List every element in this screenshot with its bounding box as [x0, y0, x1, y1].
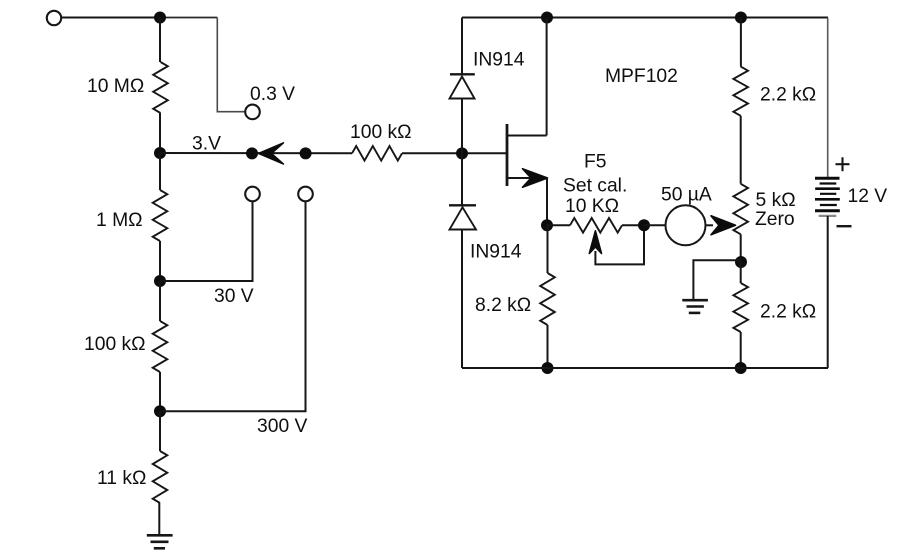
terminal 0.3 V: [245, 105, 260, 120]
diode D1 IN914 (upper): [450, 18, 475, 154]
node: input top junction: [154, 12, 166, 24]
potentiometer 10 KΩ Set cal (F5): [570, 218, 622, 233]
wire: 100k bottom to 300V node: [159, 372, 161, 411]
ground (meter reference): [682, 300, 708, 313]
battery B1 12 V: [827, 18, 829, 178]
resistor 10 MΩ: [153, 62, 168, 113]
resistor 8.2 kΩ: [540, 273, 555, 325]
svg-text:10 KΩ: 10 KΩ: [565, 196, 619, 217]
svg-text:2.2 kΩ: 2.2 kΩ: [760, 84, 816, 105]
svg-text:100 kΩ: 100 kΩ: [350, 122, 412, 143]
resistor 11 kΩ: [153, 451, 168, 503]
wire: input node to 0.3V branch corner: [160, 17, 217, 19]
JFET source arrow: [523, 169, 548, 188]
wire: meter to zero arrow: [706, 224, 714, 226]
node: 8.2k / bottom bus: [542, 362, 554, 374]
wire: top-left terminal to input node: [62, 17, 161, 19]
svg-text:100 kΩ: 100 kΩ: [84, 334, 146, 355]
svg-text:8.2 kΩ: 8.2 kΩ: [475, 295, 531, 316]
wire: 3V node to 1M top: [159, 153, 161, 190]
node: zero / ground junction: [735, 256, 747, 268]
svg-text:IN914: IN914: [470, 242, 522, 263]
resistor 2.2 kΩ (lower): [733, 283, 748, 332]
wire: node to meter: [644, 224, 666, 226]
wire: 1M bottom to 30V node: [159, 241, 161, 281]
svg-text:2.2 kΩ: 2.2 kΩ: [760, 302, 816, 323]
wire: source down to cal node: [546, 178, 548, 225]
battery minus sign: [837, 225, 852, 227]
svg-text:F5: F5: [584, 152, 607, 173]
potentiometer 5 kΩ Zero: [733, 184, 748, 235]
wire: 300V node to 11k top: [159, 411, 161, 451]
ground (input divider): [147, 535, 173, 548]
wire: 10M bottom to 3V node: [159, 113, 161, 153]
node: 2.2k / bottom bus: [735, 362, 747, 374]
node: 30V tap: [154, 275, 166, 287]
wire: 0.3V branch vertical and horizontal: [217, 18, 245, 112]
wire: 2.2k to 5k pot: [740, 116, 742, 184]
resistor 100 kΩ (divider): [153, 321, 168, 372]
svg-text:Set cal.: Set cal.: [563, 176, 627, 197]
wire: gate bus 3V node to arrow node: [160, 152, 352, 154]
wire: node to 10M top: [159, 18, 161, 63]
svg-text:50 µA: 50 µA: [661, 185, 712, 206]
wire: cal node to pot: [547, 224, 570, 226]
wire: top bus node to 2.2k upper: [740, 18, 742, 67]
zero wiper arrow pointing right: [711, 216, 736, 235]
battery plus sign: [836, 157, 850, 171]
node: 2.2k / top bus: [735, 12, 747, 24]
svg-text:MPF102: MPF102: [605, 66, 678, 87]
resistor 2.2 kΩ (upper): [733, 67, 748, 116]
resistor 100 kΩ (gate): [352, 146, 402, 161]
node: 3V tap: [154, 147, 166, 159]
svg-text:3.V: 3.V: [192, 134, 221, 155]
node: selector left: [246, 147, 258, 159]
wire: cal node to 8.2k: [547, 225, 549, 273]
diode D2 IN914 (lower): [449, 153, 476, 368]
svg-text:10 MΩ: 10 MΩ: [87, 76, 144, 97]
wire: top bus: [462, 17, 828, 19]
resistor 1 MΩ: [153, 190, 168, 241]
svg-text:12 V: 12 V: [848, 186, 888, 207]
wire: 100k to diode junction: [402, 152, 507, 154]
terminal J1 input: [47, 11, 61, 25]
wire: wiper to right terminal: [595, 225, 644, 264]
wire: node to 2.2k lower: [740, 262, 742, 283]
wire: 2.2k lower to bottom bus: [740, 332, 742, 368]
node: pot / meter junction: [638, 219, 650, 231]
wire: node to ground stem: [693, 260, 741, 300]
transistor Q1 MPF102 JFET: [507, 18, 547, 187]
wire: 30V node to 100k top: [159, 281, 161, 321]
wire: 11k bottom to ground: [158, 503, 160, 534]
svg-text:5 kΩ: 5 kΩ: [756, 190, 796, 211]
svg-text:1 MΩ: 1 MΩ: [96, 210, 143, 231]
wire: 300V tap to terminal: [160, 201, 306, 411]
svg-text:11 kΩ: 11 kΩ: [97, 468, 146, 489]
wire: 30V tap to terminal: [160, 201, 253, 281]
wire: bottom bus: [462, 367, 828, 369]
selector arrow (range switch) pointing left: [259, 143, 284, 164]
terminal 300 V: [298, 187, 313, 202]
node: drain / top bus: [541, 12, 553, 24]
wire: 5k to mid node: [740, 234, 742, 262]
svg-text:30 V: 30 V: [214, 286, 254, 307]
svg-text:300 V: 300 V: [257, 416, 308, 437]
svg-text:0.3 V: 0.3 V: [250, 84, 295, 105]
wire: battery to bottom bus: [827, 216, 829, 368]
meter M1 50 µA: [666, 205, 706, 245]
node: source / cal junction: [541, 219, 553, 231]
svg-text:Zero: Zero: [755, 209, 795, 230]
wire: pot right lead: [622, 224, 644, 226]
node: 300V tap: [154, 405, 166, 417]
terminal 30 V: [245, 187, 260, 202]
wire: 8.2k to bottom bus: [547, 325, 549, 368]
node: selector right: [300, 147, 312, 159]
pot wiper arrow: [589, 231, 601, 254]
svg-text:IN914: IN914: [473, 50, 525, 71]
node: diode junction: [456, 147, 468, 159]
